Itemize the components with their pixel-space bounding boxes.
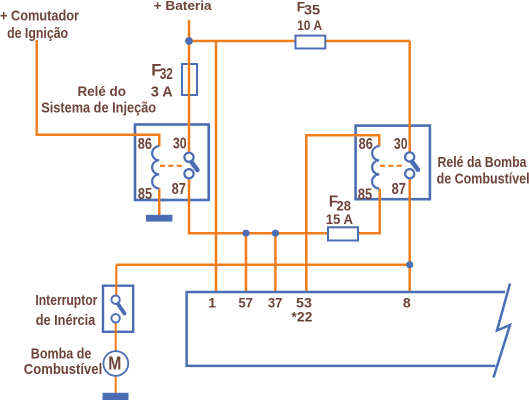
svg-text:30: 30: [394, 136, 408, 153]
wire inertia switch to fuel pump motor: [115, 323, 117, 352]
svg-text:30: 30: [173, 136, 187, 153]
node pin 8 junction dot: [406, 261, 413, 268]
ECU torn edge break: [494, 284, 511, 378]
svg-text:*22: *22: [291, 309, 312, 325]
fuse F32 body: [182, 64, 197, 95]
svg-text:M: M: [108, 354, 121, 374]
inertia switch S1 bottom contact: [111, 314, 119, 322]
svg-text:86: 86: [138, 136, 152, 153]
relay U1 contact lever: [191, 162, 197, 170]
wire bus B from inertia switch to node at pin 8: [116, 263, 409, 266]
wire ignition switch feed to relay U1 pin 86: [37, 40, 160, 146]
inertia switch S1 lever: [118, 304, 125, 314]
svg-text:86: 86: [359, 136, 373, 153]
fuel pump motor M1 circle: [103, 351, 128, 376]
node battery junction dot: [185, 37, 193, 45]
svg-text:85: 85: [358, 187, 372, 204]
svg-text:Interruptor: Interruptor: [35, 292, 97, 309]
svg-text:3 A: 3 A: [151, 83, 173, 100]
relay U2 dashed actuator line: [380, 165, 406, 167]
wire right branch down to relay U2 pin 30: [408, 41, 411, 152]
svg-text:87: 87: [172, 181, 186, 198]
inertia switch S1 box: [103, 286, 133, 332]
relay U1 contact circle pin 87: [184, 169, 193, 178]
svg-text:Sistema de Injeção: Sistema de Injeção: [41, 100, 156, 117]
wire battery vertical to relay U1 pin 30: [188, 20, 191, 153]
relay U2 coil: [372, 146, 379, 188]
svg-text:+ Bateria: + Bateria: [154, 0, 213, 13]
wire top bus from battery junction to right branch: [189, 40, 410, 43]
inertia switch S1 top contact: [111, 296, 119, 304]
svg-text:8: 8: [403, 295, 411, 311]
fuse F35 body: [296, 36, 326, 49]
svg-text:32: 32: [160, 66, 173, 83]
svg-text:de Inércia: de Inércia: [36, 312, 96, 329]
svg-text:+ Comutador: + Comutador: [0, 7, 79, 24]
svg-text:Combustível: Combustível: [24, 361, 102, 378]
svg-text:85: 85: [138, 186, 152, 203]
svg-text:37: 37: [268, 295, 282, 311]
ground below relay U1: [146, 215, 172, 222]
wire fuel pump motor to ground: [115, 376, 117, 394]
wire relay U1 pin 85 to ground: [158, 188, 161, 215]
relay U1 box: [135, 125, 209, 201]
node bus A pin 37 dot: [272, 230, 279, 237]
svg-text:de Combustível: de Combustível: [437, 171, 529, 188]
svg-text:Relé da Bomba: Relé da Bomba: [438, 154, 528, 171]
relay U2 box: [356, 126, 430, 200]
svg-text:35: 35: [304, 2, 321, 17]
wire bus B down into inertia switch S1: [115, 265, 117, 296]
wire ECU pin 37 stub: [274, 232, 277, 292]
svg-text:15 A: 15 A: [326, 211, 353, 227]
ground below fuel pump: [103, 393, 129, 400]
relay U1 contact circle pin 30: [184, 153, 193, 162]
svg-text:87: 87: [392, 181, 406, 198]
svg-text:10 A: 10 A: [297, 18, 322, 33]
relay U1 coil: [152, 146, 159, 188]
fuse F28 body: [328, 227, 358, 240]
relay U2 contact circle pin 30: [405, 152, 414, 161]
relay U1 dashed actuator line: [160, 165, 185, 167]
wire relay U2 pin 87 down to ECU pin 8: [408, 179, 411, 292]
svg-text:de Ignição: de Ignição: [7, 25, 68, 42]
svg-text:57: 57: [239, 295, 253, 311]
svg-text:Relé do: Relé do: [78, 83, 126, 99]
wire ECU pin 53 to relay U2 pin 86: [306, 135, 379, 291]
wire relay U1 pin 87 down and bus A to relay U2 pin 85: [189, 179, 380, 234]
relay U2 contact circle pin 87: [405, 169, 414, 178]
svg-text:1: 1: [208, 295, 216, 311]
relay U2 contact lever: [412, 162, 418, 170]
wire node 1 vertical battery to ECU pin 1: [215, 41, 218, 292]
ECU connector box: [187, 292, 505, 366]
wire ECU pin 57 stub: [245, 232, 248, 292]
node bus A pin 57 dot: [242, 230, 249, 237]
